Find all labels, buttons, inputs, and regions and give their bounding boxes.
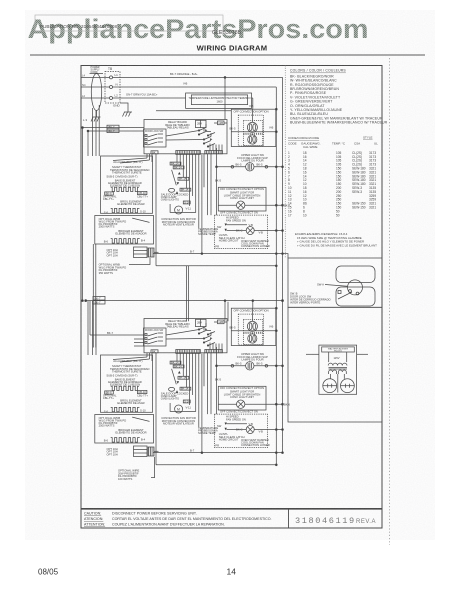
caution / part number divider — [288, 509, 290, 528]
temperature limiter 1600 — [186, 93, 252, 108]
wire L2 tap to convection fans — [249, 98, 254, 109]
scan artifact dotted line right — [389, 58, 391, 545]
feed wire to lower convection fans — [252, 301, 254, 308]
header publication box — [35, 15, 223, 31]
wire N from terminal block — [81, 82, 276, 87]
optional broil wire note upper — [99, 258, 150, 275]
pilot lamp left — [323, 374, 337, 393]
connector bundle crossing between sections — [187, 266, 229, 322]
svg-text:14: 14 — [227, 567, 237, 577]
wire L1 from terminal block to right bus — [81, 72, 283, 78]
caution box top line — [81, 508, 382, 510]
caution text EN — [84, 512, 272, 527]
svg-text:08/05: 08/05 — [38, 568, 59, 577]
oven lamp pilot assembly — [306, 345, 368, 394]
upper section top wire — [156, 110, 231, 112]
main diagram border — [81, 66, 382, 529]
right bus B down — [282, 77, 284, 452]
door lock switch assembly — [288, 258, 382, 307]
upper oven section — [95, 108, 291, 266]
ground GND from terminal block — [113, 103, 132, 117]
right bus A down — [275, 87, 277, 465]
legend colors title — [288, 69, 388, 248]
feed wire to lower relay board — [224, 301, 226, 321]
legend example note — [295, 232, 377, 247]
ground L3 chassis — [83, 111, 101, 123]
scan texture overlay — [25, 10, 435, 540]
legend color list — [290, 74, 388, 124]
pilot transformer T1 — [328, 363, 347, 392]
inter-section bus L1 lower — [82, 296, 284, 304]
right lower enclosure — [288, 307, 382, 422]
power supply cord — [90, 66, 104, 111]
left bus wires down — [83, 105, 100, 301]
left bus wires to lower section — [88, 301, 96, 355]
header underline — [30, 54, 425, 56]
wire BK-7 to lower relay board — [90, 331, 144, 346]
wire L2 from terminal block into protector — [81, 93, 186, 98]
upper bus elbow to door lock — [283, 254, 289, 258]
optional wire note lower — [118, 457, 155, 481]
lower oven section — [95, 307, 291, 465]
wire BK-7 pair to upper relay board — [82, 125, 144, 133]
terminal block TB — [105, 67, 120, 103]
left wires crossing between sections — [90, 244, 96, 348]
legend column dotted separator — [284, 66, 286, 259]
pilot lamp right — [341, 374, 355, 393]
legend code table — [288, 136, 378, 149]
feed wire to upper relay board — [224, 77, 226, 119]
